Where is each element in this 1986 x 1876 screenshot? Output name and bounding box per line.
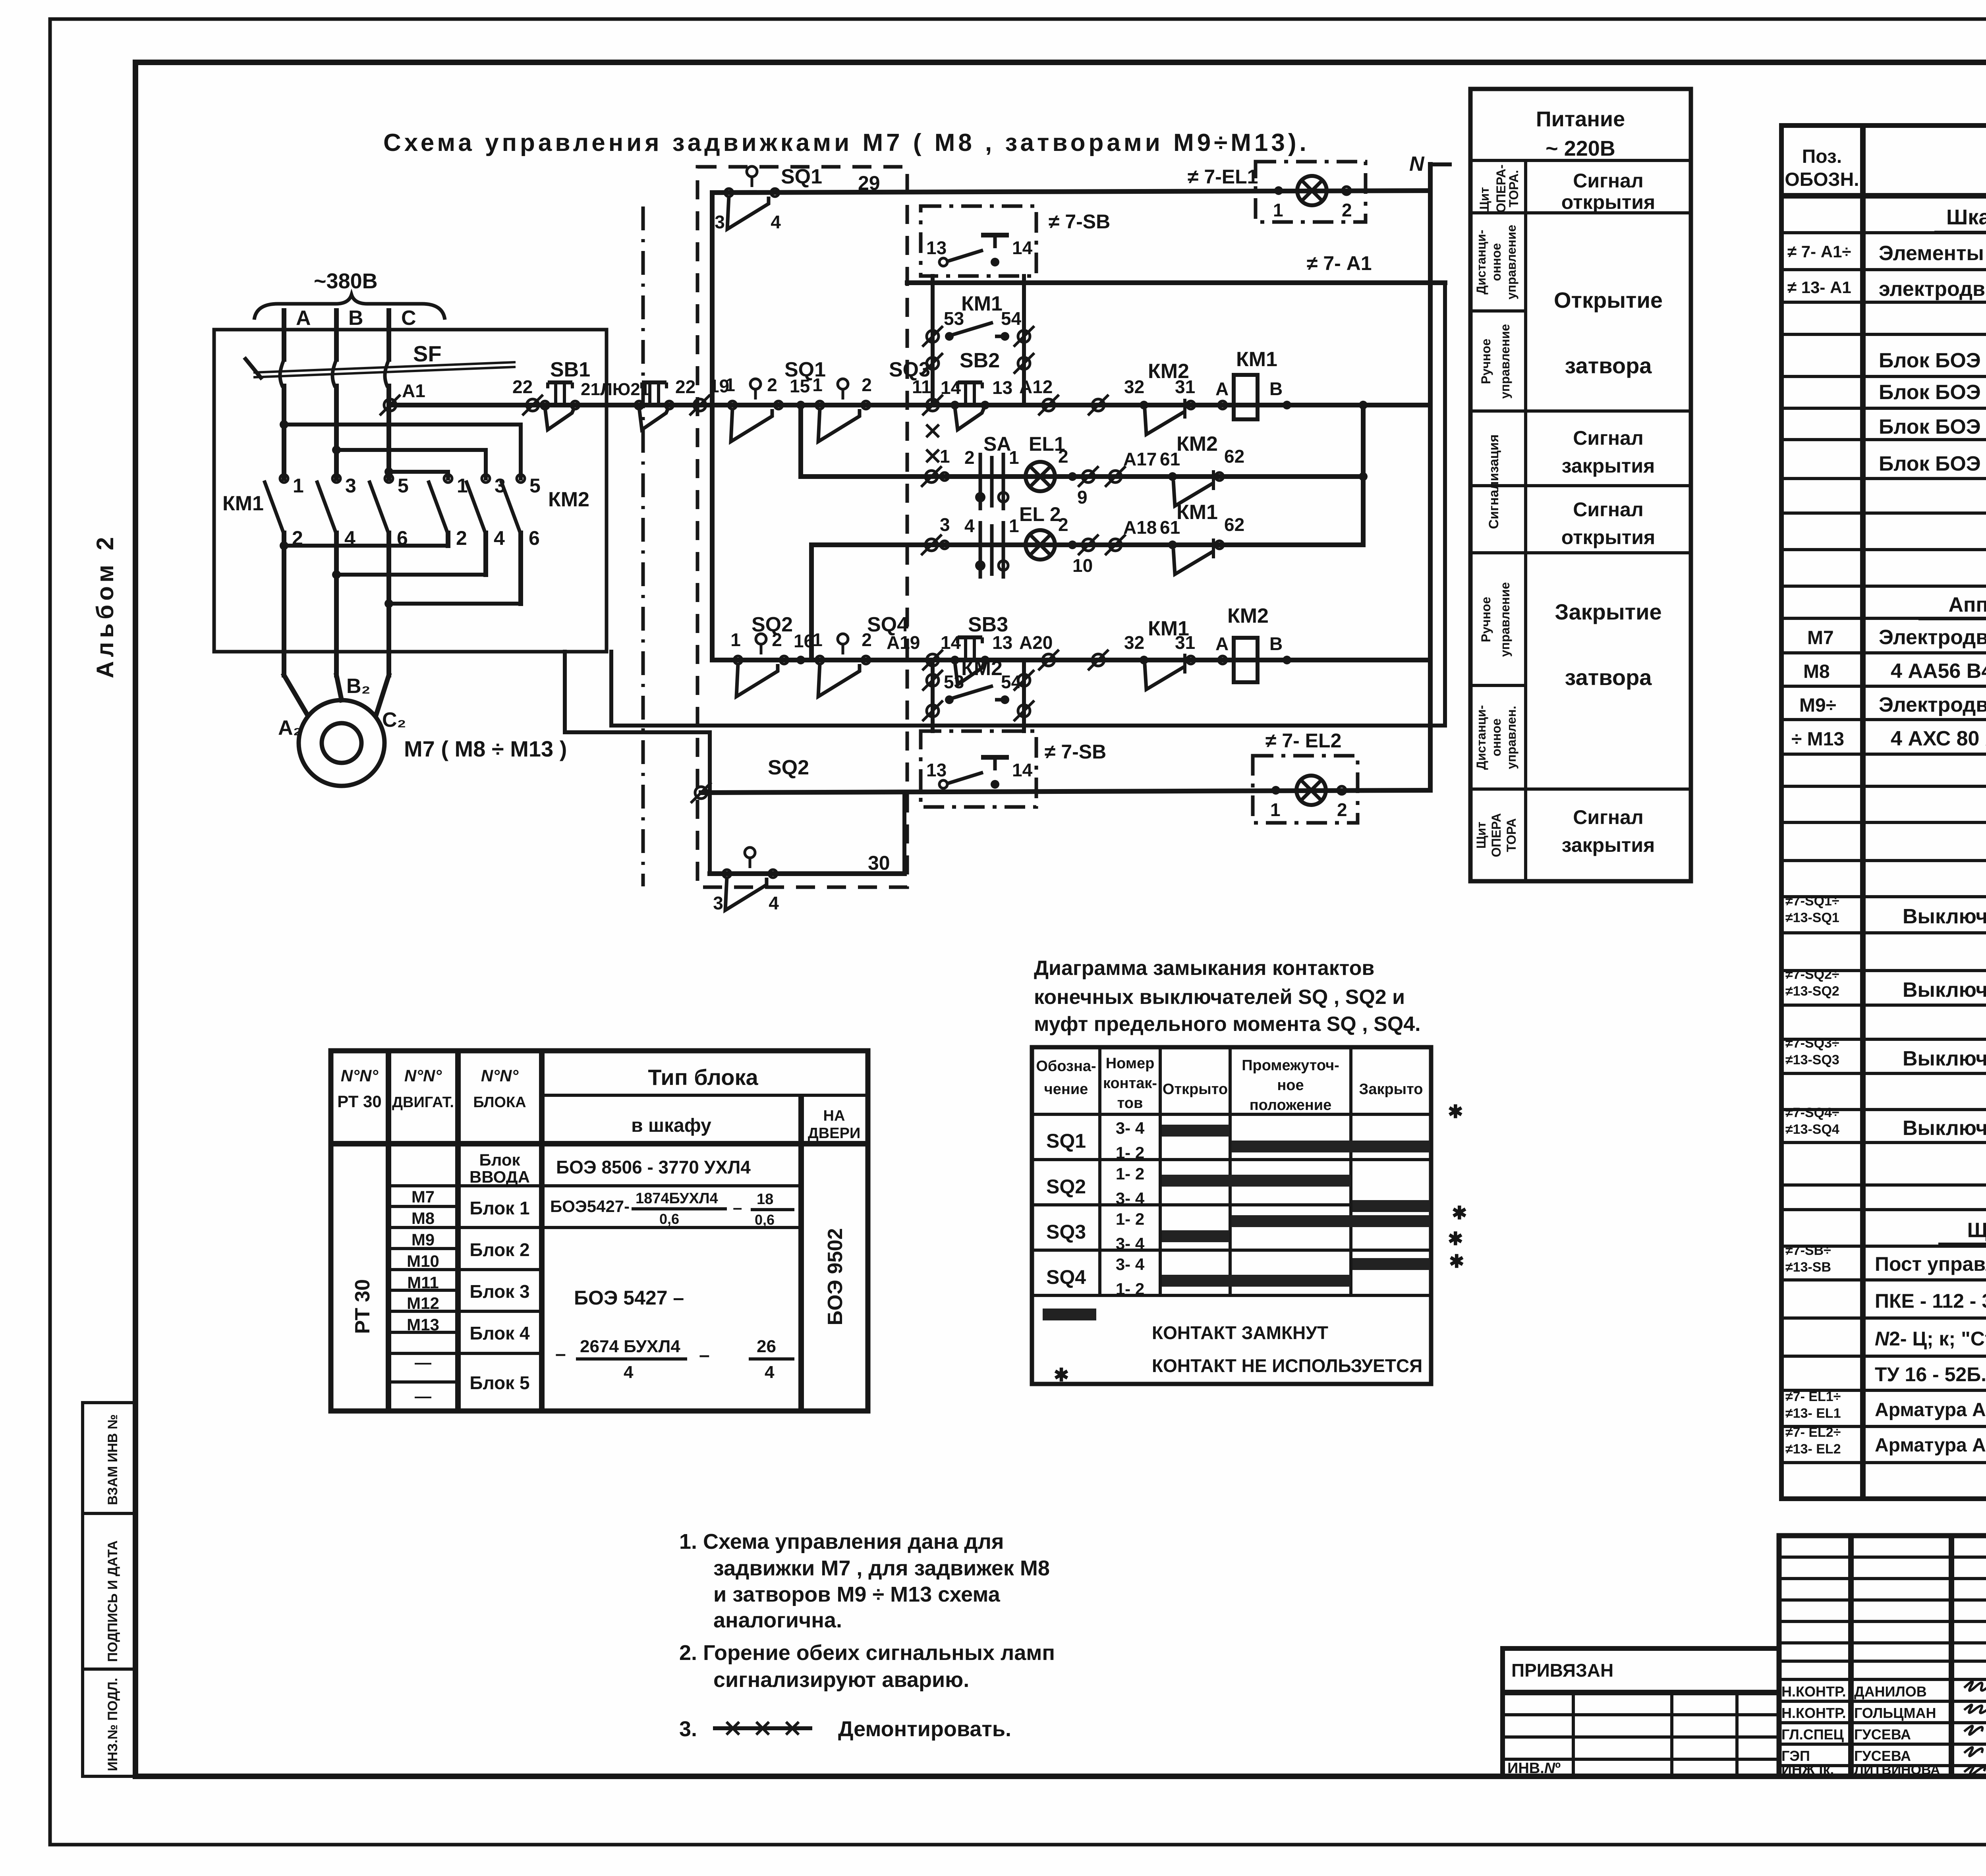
svg-text:5: 5 bbox=[398, 475, 409, 497]
svg-text:ВВОДА: ВВОДА bbox=[469, 1168, 530, 1186]
svg-text:управление: управление bbox=[1498, 324, 1512, 399]
pushbutton SB3 contact 14-13 bbox=[955, 637, 984, 685]
svg-text:КОНТАКТ НЕ ИСПОЛЬЗУЕТСЯ: КОНТАКТ НЕ ИСПОЛЬЗУЕТСЯ bbox=[1152, 1355, 1422, 1376]
svg-text:М7: М7 bbox=[411, 1187, 435, 1206]
pushbutton SB1 stop bbox=[545, 382, 574, 430]
svg-text:Выключатель путевой: Выключатель путевой bbox=[1903, 979, 1986, 1002]
svg-text:30: 30 bbox=[868, 852, 890, 874]
svg-text:≠7-SQ3÷: ≠7-SQ3÷ bbox=[1785, 1036, 1839, 1051]
svg-text:Арматура АМЕ 32322 1У2 ~ 2: Арматура АМЕ 32322 1У2 ~ 220В bbox=[1875, 1399, 1986, 1421]
svg-text:контак-: контак- bbox=[1103, 1075, 1157, 1092]
contactor KM2 aux contact 53-54 bbox=[944, 672, 1022, 704]
svg-text:≠13- EL2: ≠13- EL2 bbox=[1785, 1442, 1841, 1457]
svg-text:онное: онное bbox=[1489, 718, 1503, 757]
svg-text:1- 2: 1- 2 bbox=[1116, 1143, 1144, 1162]
SECTION:FUNCTABLE bbox=[1470, 89, 1691, 881]
limit switch SQ2 contact 3-4 bottom bbox=[713, 847, 779, 913]
svg-text:1: 1 bbox=[1009, 447, 1019, 468]
svg-text:Щит оператора: Щит оператора bbox=[1967, 1219, 1986, 1242]
svg-text:В: В bbox=[1269, 378, 1283, 399]
svg-text:Н.КОНТР.: Н.КОНТР. bbox=[1781, 1683, 1846, 1700]
svg-text:31: 31 bbox=[1175, 632, 1195, 653]
svg-text:≠7- EL2÷: ≠7- EL2÷ bbox=[1785, 1425, 1841, 1440]
svg-text:1- 2: 1- 2 bbox=[1116, 1164, 1144, 1183]
svg-text:А: А bbox=[296, 307, 311, 330]
svg-text:62: 62 bbox=[1224, 514, 1244, 535]
bottom rung wire 30 bbox=[710, 871, 904, 876]
left feed riser bbox=[710, 193, 715, 660]
svg-text:БОЭ 5427 –: БОЭ 5427 – bbox=[574, 1287, 684, 1309]
signal lamp EL2 field bbox=[1296, 776, 1326, 805]
svg-text:SQ2: SQ2 bbox=[768, 756, 809, 779]
svg-text:2674 БУХЛ4: 2674 БУХЛ4 bbox=[580, 1337, 680, 1356]
coil KM2 bbox=[1234, 638, 1258, 682]
svg-text:1: 1 bbox=[293, 475, 304, 497]
svg-text:SQ3: SQ3 bbox=[1046, 1221, 1086, 1243]
svg-text:онное: онное bbox=[1489, 243, 1503, 281]
svg-text:Закрыто: Закрыто bbox=[1359, 1081, 1423, 1098]
svg-text:–: – bbox=[733, 1198, 742, 1217]
svg-text:М8: М8 bbox=[1803, 661, 1830, 682]
svg-text:54: 54 bbox=[1001, 672, 1022, 692]
svg-text:1874БУХЛ4: 1874БУХЛ4 bbox=[636, 1190, 718, 1207]
phase B lead bbox=[334, 311, 339, 359]
svg-text:SA: SA bbox=[983, 433, 1011, 455]
svg-text:задвижки М7 , для задвижек: задвижки М7 , для задвижек М8 bbox=[713, 1556, 1050, 1580]
svg-text:ТОРА: ТОРА bbox=[1504, 818, 1518, 852]
SECTION:STAMP bbox=[1503, 1536, 1986, 1845]
svg-text:чение: чение bbox=[1044, 1081, 1088, 1098]
SECTION:BIGTABLE bbox=[1781, 125, 1986, 1499]
svg-text:Промежуточ-: Промежуточ- bbox=[1242, 1057, 1339, 1074]
cabinet enclosure bbox=[214, 330, 607, 652]
svg-text:1: 1 bbox=[1009, 515, 1019, 536]
svg-text:открытия: открытия bbox=[1561, 191, 1655, 213]
svg-text:Блок БОЭ 9502: Блок БОЭ 9502 bbox=[1879, 415, 1986, 438]
svg-text:Схема управления задвижками М: Схема управления задвижками М7 ( М8 , за… bbox=[383, 129, 1310, 156]
svg-text:29: 29 bbox=[858, 172, 880, 194]
torque switch SQ4 contact 1-2 bbox=[812, 629, 872, 697]
SECTION:NOTES bbox=[679, 1530, 1055, 1741]
svg-text:Блок БОЭ 8506 - 3770 УХЛ4: Блок БОЭ 8506 - 3770 УХЛ4 bbox=[1879, 452, 1986, 475]
svg-text:22: 22 bbox=[675, 376, 695, 397]
contactor KM1 pole1 bbox=[264, 475, 304, 675]
svg-text:✱: ✱ bbox=[1449, 1251, 1464, 1272]
svg-text:≠7- EL1÷: ≠7- EL1÷ bbox=[1785, 1389, 1841, 1404]
svg-text:3: 3 bbox=[713, 893, 723, 913]
svg-text:муфт предельного момента SQ: муфт предельного момента SQ , SQ4. bbox=[1034, 1013, 1421, 1036]
svg-text:14: 14 bbox=[941, 377, 961, 398]
selector switch SA pole2 bbox=[975, 521, 1008, 579]
svg-text:Поз.: Поз. bbox=[1802, 146, 1842, 167]
svg-text:Сигнализация: Сигнализация bbox=[1486, 434, 1501, 529]
SECTION:BLOCKTABLE bbox=[331, 1051, 868, 1411]
svg-text:закрытия: закрытия bbox=[1562, 455, 1655, 477]
svg-text:4 АА56 В4 У3,: 4 АА56 В4 У3, bbox=[1891, 660, 1986, 683]
svg-text:1: 1 bbox=[725, 374, 735, 395]
svg-text:КМ2: КМ2 bbox=[548, 488, 589, 511]
svg-text:Открытие: Открытие bbox=[1554, 288, 1663, 313]
svg-text:М7: М7 bbox=[1807, 627, 1834, 648]
svg-text:Открыто: Открыто bbox=[1163, 1081, 1228, 1098]
svg-text:Тип блока: Тип блока bbox=[648, 1065, 758, 1090]
KM2 aux column right bbox=[1022, 660, 1026, 731]
svg-text:Закрытие: Закрытие bbox=[1555, 599, 1661, 624]
svg-text:М7 ( М8 ÷ М13 ): М7 ( М8 ÷ М13 ) bbox=[404, 736, 567, 761]
svg-text:Пост управления кнопочный: Пост управления кнопочный bbox=[1875, 1253, 1986, 1275]
svg-text:SB1: SB1 bbox=[550, 358, 590, 381]
svg-text:управление: управление bbox=[1498, 582, 1512, 657]
svg-text:1: 1 bbox=[812, 374, 823, 395]
svg-text:≠13-SQ1: ≠13-SQ1 bbox=[1785, 910, 1839, 925]
pushbutton stop second bbox=[639, 382, 668, 430]
svg-text:✱: ✱ bbox=[1054, 1365, 1069, 1385]
svg-text:С₂: С₂ bbox=[382, 708, 406, 731]
svg-text:–: – bbox=[699, 1345, 710, 1366]
svg-text:затвора: затвора bbox=[1565, 353, 1652, 378]
motor M7 bbox=[299, 700, 384, 786]
svg-text:4 АХС 80 А 4У3 ,: 4 АХС 80 А 4У3 , bbox=[1891, 727, 1986, 750]
svg-text:1: 1 bbox=[1270, 799, 1281, 820]
svg-text:ИНЗ.№ ПОДЛ.: ИНЗ.№ ПОДЛ. bbox=[105, 1678, 120, 1771]
svg-text:2: 2 bbox=[862, 374, 872, 395]
svg-text:ное: ное bbox=[1277, 1077, 1304, 1094]
svg-text:3: 3 bbox=[345, 475, 356, 497]
rail A1 horizontal bbox=[907, 280, 1445, 285]
svg-text:18: 18 bbox=[757, 1191, 773, 1208]
svg-text:аналогична.: аналогична. bbox=[713, 1608, 842, 1632]
svg-text:ПКЕ - 112 - 3У3 ; N1- Ц; 4;: ПКЕ - 112 - 3У3 ; N1- Ц; 4; "Откр". bbox=[1875, 1290, 1986, 1312]
pushbutton SB open in box bbox=[926, 235, 1033, 266]
svg-text:3: 3 bbox=[940, 514, 950, 535]
crossfeed C to KM2 pole1 bbox=[389, 472, 448, 479]
svg-text:А1: А1 bbox=[402, 380, 425, 401]
svg-text:КМ1: КМ1 bbox=[1177, 501, 1218, 524]
svg-text:КОНТАКТ ЗАМКНУТ: КОНТАКТ ЗАМКНУТ bbox=[1152, 1322, 1328, 1343]
pushbutton SB close in box bbox=[926, 757, 1033, 789]
svg-text:4: 4 bbox=[964, 515, 975, 536]
svg-text:2: 2 bbox=[1342, 200, 1352, 220]
junction to rail bbox=[1359, 401, 1368, 409]
svg-text:С: С bbox=[401, 307, 416, 330]
top rung wire 29 bbox=[712, 191, 1430, 193]
svg-text:2: 2 bbox=[1058, 514, 1068, 535]
svg-text:2: 2 bbox=[964, 447, 975, 468]
svg-text:1: 1 bbox=[1273, 200, 1283, 220]
svg-text:ДВИГАТ.: ДВИГАТ. bbox=[392, 1094, 454, 1111]
svg-text:А₂: А₂ bbox=[278, 716, 302, 739]
svg-text:≠ 7-EL1: ≠ 7-EL1 bbox=[1188, 166, 1258, 188]
svg-text:62: 62 bbox=[1224, 446, 1244, 467]
svg-text:4: 4 bbox=[771, 212, 781, 232]
crossfeed A to KM2 pole5 bbox=[284, 425, 521, 479]
svg-text:4: 4 bbox=[769, 893, 779, 913]
svg-text:≠ 7-SB: ≠ 7-SB bbox=[1045, 741, 1106, 763]
limit switch SQ1 contact 3-4 top bbox=[715, 166, 781, 232]
svg-text:13: 13 bbox=[992, 377, 1012, 398]
svg-text:Блок 2: Блок 2 bbox=[469, 1239, 529, 1260]
svg-text:Сигнал: Сигнал bbox=[1573, 427, 1643, 449]
lower rung KM2 circuit bbox=[712, 658, 1430, 662]
svg-text:КМ1: КМ1 bbox=[1236, 348, 1277, 371]
demountable link marks bbox=[926, 425, 939, 437]
svg-text:32: 32 bbox=[1124, 632, 1144, 653]
svg-text:Выключатель путевой: Выключатель путевой bbox=[1903, 905, 1986, 928]
svg-text:3: 3 bbox=[715, 212, 725, 232]
svg-text:Выключатель муфтовый: Выключатель муфтовый bbox=[1903, 1117, 1986, 1140]
node 16 bbox=[796, 656, 805, 664]
svg-text:Аппаратура по месту: Аппаратура по месту bbox=[1948, 593, 1986, 616]
KM1 aux column left bbox=[931, 276, 935, 405]
signal lamp EL1 panel bbox=[1297, 176, 1327, 205]
svg-text:Электродвигатель: Электродвигатель bbox=[1879, 693, 1986, 716]
contactor KM1 pole3 bbox=[369, 475, 409, 675]
svg-text:54: 54 bbox=[1001, 308, 1022, 329]
svg-text:ОБОЗН.: ОБОЗН. bbox=[1785, 169, 1859, 190]
svg-text:14: 14 bbox=[1012, 237, 1033, 258]
svg-text:3- 4: 3- 4 bbox=[1116, 1255, 1145, 1274]
svg-text:затвора: затвора bbox=[1565, 665, 1652, 690]
svg-text:SQ4: SQ4 bbox=[1046, 1266, 1086, 1288]
svg-text:КМ1: КМ1 bbox=[961, 292, 1003, 315]
brace 380V bbox=[254, 295, 445, 320]
svg-text:0,6: 0,6 bbox=[659, 1211, 679, 1227]
svg-text:N°N°: N°N° bbox=[341, 1066, 379, 1085]
svg-text:21ЛЮ21: 21ЛЮ21 bbox=[581, 380, 650, 399]
svg-text:БЛОКА: БЛОКА bbox=[473, 1094, 526, 1111]
svg-text:≠7-SQ1÷: ≠7-SQ1÷ bbox=[1785, 894, 1839, 909]
svg-text:Блок БОЭ 5427 –: Блок БОЭ 5427 – bbox=[1879, 349, 1986, 372]
pushbutton SB2 contact 14-13 bbox=[955, 382, 984, 430]
operator panel SB box lower bbox=[921, 731, 1036, 807]
svg-text:N°N°: N°N° bbox=[404, 1066, 442, 1085]
svg-text:КМ2: КМ2 bbox=[961, 657, 1003, 680]
svg-text:в шкафу: в шкафу bbox=[631, 1115, 711, 1136]
svg-text:КМ2: КМ2 bbox=[1227, 604, 1269, 627]
svg-text:Номер: Номер bbox=[1106, 1055, 1155, 1072]
left margin stamp boxes bbox=[83, 1403, 135, 1513]
svg-text:1- 2: 1- 2 bbox=[1116, 1210, 1144, 1228]
svg-text:М12: М12 bbox=[407, 1294, 439, 1312]
svg-text:1- 2: 1- 2 bbox=[1116, 1280, 1144, 1298]
svg-text:Арматура АМЕ 32122 1У2 ~ 2: Арматура АМЕ 32122 1У2 ~ 220В bbox=[1875, 1435, 1986, 1456]
svg-text:ДАНИЛОВ: ДАНИЛОВ bbox=[1854, 1683, 1927, 1700]
node A1 tap bbox=[380, 395, 400, 415]
svg-text:Шкаф РТ 30 - 81: Шкаф РТ 30 - 81 bbox=[1946, 205, 1986, 229]
svg-text:Блок 3: Блок 3 bbox=[469, 1281, 529, 1302]
svg-text:Дистанци-: Дистанци- bbox=[1474, 705, 1488, 770]
svg-text:Блок 4: Блок 4 bbox=[469, 1323, 530, 1343]
svg-text:≠13-SQ4: ≠13-SQ4 bbox=[1785, 1122, 1839, 1137]
svg-text:~ 220В: ~ 220В bbox=[1546, 137, 1615, 160]
svg-text:А18: А18 bbox=[1123, 517, 1157, 538]
svg-text:электродвигателями: М7 ÷ М1: электродвигателями: М7 ÷ М13 bbox=[1879, 278, 1986, 301]
svg-text:ТУ 16 - 52Б. 216 - 78: ТУ 16 - 52Б. 216 - 78 bbox=[1875, 1363, 1986, 1386]
motor feed A bbox=[284, 675, 307, 714]
svg-text:ВЗАМ ИНВ №: ВЗАМ ИНВ № bbox=[105, 1414, 120, 1505]
svg-text:2: 2 bbox=[767, 374, 777, 395]
main rung A1 wire bbox=[390, 403, 1430, 407]
svg-text:–: – bbox=[555, 1343, 566, 1365]
phase C riser bbox=[386, 386, 391, 479]
svg-text:SF: SF bbox=[413, 341, 442, 366]
svg-text:SB3: SB3 bbox=[968, 613, 1008, 636]
field lamp rung bbox=[701, 790, 1430, 793]
svg-text:управлен.: управлен. bbox=[1504, 706, 1518, 769]
svg-text:≠ 7- А1÷: ≠ 7- А1÷ bbox=[1787, 242, 1851, 261]
contactor KM2 pole2 bbox=[466, 475, 506, 575]
svg-text:≠ 7- EL2: ≠ 7- EL2 bbox=[1265, 730, 1341, 752]
svg-text:ГЛ.СПЕЦ: ГЛ.СПЕЦ bbox=[1781, 1726, 1844, 1743]
svg-text:6: 6 bbox=[529, 527, 540, 549]
svg-text:≠ 7- А1: ≠ 7- А1 bbox=[1307, 252, 1372, 274]
svg-text:Альбом 2: Альбом 2 bbox=[92, 533, 118, 678]
svg-text:0,6: 0,6 bbox=[755, 1212, 775, 1228]
svg-text:Диаграмма замыкания контакто: Диаграмма замыкания контактов bbox=[1034, 957, 1374, 980]
node 19 bbox=[690, 395, 710, 415]
svg-text:÷ М13: ÷ М13 bbox=[1791, 729, 1844, 750]
svg-text:Блок БОЭ 5427 –: Блок БОЭ 5427 – bbox=[1879, 381, 1986, 404]
svg-text:4: 4 bbox=[765, 1363, 775, 1382]
node 22 bbox=[522, 395, 543, 415]
contactor KM1 aux contact 53-54 bbox=[944, 308, 1022, 341]
svg-text:Выключатель муфтовый: Выключатель муфтовый bbox=[1903, 1047, 1986, 1070]
svg-text:ПОДПИСЬ И ДАТА: ПОДПИСЬ И ДАТА bbox=[105, 1540, 120, 1662]
svg-text:≠7-SB÷: ≠7-SB÷ bbox=[1785, 1243, 1831, 1258]
svg-text:3- 4: 3- 4 bbox=[1116, 1189, 1145, 1208]
svg-text:закрытия: закрытия bbox=[1562, 834, 1655, 856]
svg-text:А17: А17 bbox=[1123, 449, 1157, 469]
svg-text:ЛИТВИНОВА: ЛИТВИНОВА bbox=[1854, 1762, 1940, 1778]
svg-text:ГУСЕВА: ГУСЕВА bbox=[1854, 1726, 1911, 1743]
wire A1 return riser bbox=[611, 283, 1445, 726]
svg-text:Демонтировать.: Демонтировать. bbox=[838, 1717, 1011, 1741]
svg-text:сигнализируют аварию.: сигнализируют аварию. bbox=[713, 1668, 969, 1692]
svg-text:В: В bbox=[348, 307, 363, 330]
svg-text:Элементы управления: Элементы управления bbox=[1879, 242, 1986, 265]
circuit breaker SF bbox=[244, 341, 516, 387]
svg-text:1: 1 bbox=[812, 629, 823, 650]
svg-text:16: 16 bbox=[794, 631, 814, 651]
svg-text:М8: М8 bbox=[411, 1209, 435, 1228]
svg-text:Блок 5: Блок 5 bbox=[469, 1372, 529, 1393]
svg-text:Н.КОНТР.: Н.КОНТР. bbox=[1781, 1705, 1846, 1721]
svg-text:ДВЕРИ: ДВЕРИ bbox=[808, 1125, 861, 1142]
svg-text:ГУСЕВА: ГУСЕВА bbox=[1854, 1748, 1911, 1764]
svg-text:4: 4 bbox=[624, 1363, 634, 1382]
panel lamp box EL1 bbox=[1256, 162, 1366, 222]
field lamp box EL2 bbox=[1253, 756, 1358, 823]
svg-text:~380В: ~380В bbox=[314, 269, 378, 293]
svg-text:4: 4 bbox=[494, 527, 505, 549]
coil KM1 bbox=[1234, 375, 1258, 419]
svg-text:≠13- EL1: ≠13- EL1 bbox=[1785, 1406, 1841, 1421]
svg-text:—: — bbox=[415, 1387, 431, 1405]
svg-text:Обозна-: Обозна- bbox=[1036, 1058, 1096, 1075]
svg-text:≠7-SQ2÷: ≠7-SQ2÷ bbox=[1785, 967, 1839, 982]
svg-text:≠ 7-SB: ≠ 7-SB bbox=[1049, 210, 1110, 233]
svg-text:КМ1: КМ1 bbox=[222, 492, 264, 515]
svg-text:ОПЕРА: ОПЕРА bbox=[1489, 813, 1503, 857]
svg-text:N: N bbox=[1409, 152, 1425, 176]
crossfeed B to KM2 pole3 bbox=[336, 450, 486, 479]
svg-text:SQ1: SQ1 bbox=[781, 165, 822, 188]
svg-text:2: 2 bbox=[1337, 799, 1347, 820]
svg-text:ГОЛЬЦМАН: ГОЛЬЦМАН bbox=[1854, 1705, 1936, 1721]
svg-text:ОПЕРА-: ОПЕРА- bbox=[1494, 164, 1508, 213]
svg-text:3- 4: 3- 4 bbox=[1116, 1234, 1145, 1253]
valve unit dashed enclosure bbox=[697, 167, 907, 887]
svg-text:3.: 3. bbox=[679, 1717, 697, 1741]
svg-text:БОЭ5427-: БОЭ5427- bbox=[550, 1197, 630, 1216]
svg-text:А19: А19 bbox=[887, 632, 920, 653]
svg-text:НА: НА bbox=[823, 1108, 845, 1124]
svg-text:тов: тов bbox=[1117, 1095, 1143, 1112]
svg-text:открытия: открытия bbox=[1561, 526, 1655, 548]
limit switch SQ2 contact 1-2 bbox=[730, 629, 788, 697]
svg-text:9: 9 bbox=[1077, 487, 1088, 508]
svg-text:1. Схема управления дана д: 1. Схема управления дана для bbox=[679, 1530, 1004, 1554]
svg-text:14: 14 bbox=[941, 632, 961, 653]
svg-text:положение: положение bbox=[1250, 1097, 1332, 1114]
svg-text:≠13-SQ3: ≠13-SQ3 bbox=[1785, 1052, 1839, 1067]
svg-text:1: 1 bbox=[940, 446, 950, 467]
svg-text:SB2: SB2 bbox=[960, 349, 1000, 372]
svg-text:11: 11 bbox=[912, 376, 931, 397]
svg-text:А20: А20 bbox=[1019, 632, 1053, 653]
svg-text:Щит: Щит bbox=[1474, 822, 1488, 849]
wire to KM2 interlock bbox=[1088, 395, 1109, 415]
SECTION:DIAGTABLE bbox=[1032, 957, 1467, 1385]
svg-text:конечных выключателей SQ ,: конечных выключателей SQ , SQ2 и bbox=[1034, 986, 1405, 1009]
KM1 aux column right bbox=[1022, 276, 1026, 405]
svg-text:Сигнал: Сигнал bbox=[1573, 498, 1643, 521]
svg-text:✱: ✱ bbox=[1452, 1202, 1467, 1223]
svg-text:М11: М11 bbox=[407, 1273, 439, 1292]
svg-text:М13: М13 bbox=[407, 1315, 439, 1334]
svg-text:Ручное: Ручное bbox=[1479, 597, 1493, 642]
svg-text:22: 22 bbox=[512, 376, 533, 397]
lamp rung EL1 green bbox=[801, 474, 1363, 479]
svg-text:≠7-SQ4÷: ≠7-SQ4÷ bbox=[1785, 1105, 1839, 1120]
phase A riser bbox=[282, 386, 286, 479]
svg-text:26: 26 bbox=[757, 1337, 776, 1356]
svg-text:2: 2 bbox=[1058, 446, 1068, 467]
svg-text:Блок: Блок bbox=[479, 1150, 521, 1169]
svg-text:≠13-SQ2: ≠13-SQ2 bbox=[1785, 984, 1839, 999]
limit switch SQ1 contact 1-2 bbox=[725, 374, 782, 442]
contactor KM1 NC interlock 31-32 bbox=[1140, 654, 1195, 689]
contactor KM1 pole2 bbox=[317, 475, 356, 675]
svg-text:РТ 30: РТ 30 bbox=[351, 1279, 374, 1334]
svg-text:КМ2: КМ2 bbox=[1177, 432, 1218, 455]
svg-text:БОЭ 8506 - 3770 УХЛ4: БОЭ 8506 - 3770 УХЛ4 bbox=[556, 1157, 751, 1177]
svg-text:N°N°: N°N° bbox=[481, 1066, 519, 1085]
svg-text:М9: М9 bbox=[411, 1230, 435, 1249]
svg-text:ПРИВЯЗАН: ПРИВЯЗАН bbox=[1511, 1660, 1613, 1681]
svg-text:и затворов М9 ÷ М13 схема: и затворов М9 ÷ М13 схема bbox=[713, 1583, 1001, 1606]
svg-text:А: А bbox=[1215, 633, 1229, 654]
svg-text:31: 31 bbox=[1175, 376, 1195, 397]
svg-text:3- 4: 3- 4 bbox=[1116, 1119, 1145, 1137]
svg-text:ТОРА.: ТОРА. bbox=[1507, 170, 1521, 207]
wire 30 return bbox=[565, 652, 710, 874]
svg-text:Блок 1: Блок 1 bbox=[469, 1198, 529, 1218]
svg-text:N2- Ц; к; "Стоп" , N3- Ц; 4;: N2- Ц; к; "Стоп" , N3- Ц; 4; "Закр". bbox=[1875, 1328, 1986, 1350]
svg-text:10: 10 bbox=[1072, 555, 1093, 576]
svg-text:32: 32 bbox=[1124, 376, 1144, 397]
svg-text:Дистанци-: Дистанци- bbox=[1474, 230, 1488, 294]
